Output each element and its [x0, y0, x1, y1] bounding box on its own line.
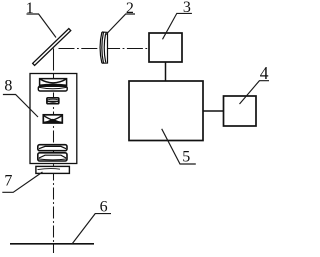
svg-text:7: 7: [4, 173, 12, 190]
svg-text:4: 4: [260, 63, 269, 83]
svg-text:8: 8: [4, 78, 12, 95]
svg-text:5: 5: [182, 148, 190, 165]
svg-text:2: 2: [126, 0, 134, 17]
svg-text:1: 1: [26, 0, 34, 17]
svg-text:3: 3: [183, 0, 191, 16]
svg-text:6: 6: [100, 199, 108, 216]
